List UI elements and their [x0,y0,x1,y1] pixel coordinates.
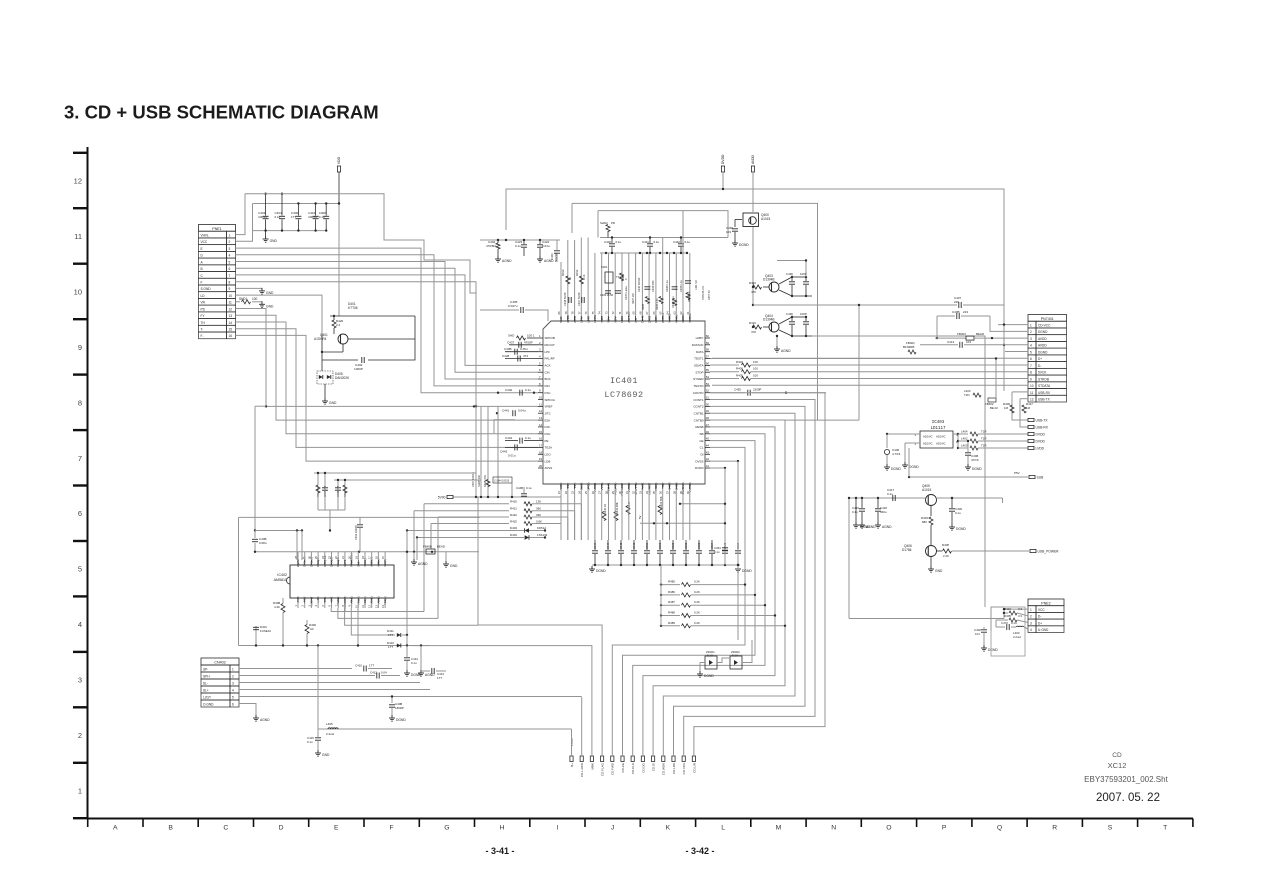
svg-text:33: 33 [638,491,642,495]
svg-text:C467 100/10: C467 100/10 [471,472,475,487]
svg-text:A1015: A1015 [761,217,770,221]
svg-text:0.047u: 0.047u [508,304,518,308]
svg-text:R421: R421 [510,507,517,511]
svg-text:0.2K: 0.2K [694,580,700,584]
wires PNE1 VHVL VCC [236,194,253,242]
svg-text:USB-RX: USB-RX [1036,425,1049,429]
svg-text:CONT2: CONT2 [693,405,703,409]
svg-text:PVB: PVB [296,596,300,601]
wires IC401 bottom pins down [561,489,690,540]
svg-text:FSC: FSC [545,432,552,436]
svg-text:2.2: 2.2 [336,323,341,327]
svg-text:AGND: AGND [502,259,512,263]
svg-text:880: 880 [922,520,927,524]
svg-text:2.2uH: 2.2uH [1013,635,1021,639]
svg-text:A3: A3 [310,627,314,631]
svg-text:100: 100 [753,360,758,364]
svg-text:USB-RX: USB-RX [1038,391,1051,395]
svg-text:CE: CE [699,439,703,443]
svg-text:S: S [1108,825,1113,832]
svg-text:37: 37 [666,491,670,495]
wire VDD down [338,204,340,317]
svg-text:BEAD: BEAD [976,332,985,336]
svg-text:E: E [334,825,339,832]
svg-text:E: E [201,247,203,251]
svg-text:0.1u: 0.1u [525,436,531,440]
svg-text:D404: D404 [510,533,517,537]
svg-text:67: 67 [645,311,649,315]
svg-text:1TT: 1TT [369,664,374,668]
svg-text:LVDD: LVDD [1036,446,1045,450]
svg-text:BCK: BCK [545,377,551,381]
svg-text:5.1V: 5.1V [707,654,713,658]
svg-text:1TT: 1TT [388,645,393,649]
svg-text:25: 25 [584,491,588,495]
svg-text:Y400: Y400 [600,316,604,323]
transistor Q404 cluster [749,312,812,337]
svg-text:60: 60 [706,334,710,338]
svg-text:C451: C451 [658,542,662,549]
svg-text:5: 5 [229,260,231,264]
svg-text:DVDD: DVDD [721,154,725,164]
svg-text:0.1u: 0.1u [525,388,531,392]
svg-text:T1R: T1R [981,444,986,448]
svg-text:C-1644 100/10: C-1644 100/10 [494,481,510,483]
svg-text:3: 3 [1030,621,1032,625]
svg-text:CD-CE: CD-CE [621,763,625,773]
ground capbank [263,236,278,243]
svg-text:0.45u: 0.45u [520,347,528,351]
svg-text:100 1: 100 1 [527,334,535,338]
svg-text:11: 11 [1030,391,1034,395]
svg-text:BF03RB: BF03RB [903,345,914,349]
svg-text:R405: R405 [1004,614,1011,618]
IC IC402 AM5810 [274,553,394,611]
svg-text:180DP: 180DP [395,706,404,710]
svg-text:LINV: LINV [580,316,584,323]
transistor Q401 cluster [314,202,415,371]
svg-text:XOV: XOV [613,317,617,323]
svg-text:11: 11 [229,301,233,305]
svg-text:58: 58 [706,348,710,352]
svg-text:0.1u: 0.1u [515,244,521,248]
svg-text:5: 5 [232,696,234,700]
diode D405 DAN202K [317,360,350,398]
svg-text:2.2uH: 2.2uH [326,732,334,736]
svg-text:L: L [721,825,725,832]
svg-text:M: M [776,825,782,832]
svg-text:12: 12 [229,307,233,311]
svg-text:3: 3 [232,682,234,686]
svg-text:BEAD: BEAD [437,545,445,549]
svg-text:E2K: E2K [545,418,551,422]
svg-text:I: I [556,825,558,832]
svg-text:55: 55 [706,368,710,372]
junction dots left rows [473,405,477,407]
svg-text:LD1117: LD1117 [930,427,946,431]
transistor Q400 cluster [721,154,770,328]
svg-text:C442: C442 [505,436,513,440]
svg-text:TE2A: TE2A [545,446,553,450]
svg-text:IC401: IC401 [610,376,638,386]
ground S.GND [259,288,274,295]
svg-text:C457 3C: C457 3C [708,290,711,300]
capacitor C408r [965,440,982,471]
svg-text:0.1u: 0.1u [526,486,532,490]
svg-text:C447: C447 [593,542,597,549]
svg-text:CD-VCC: CD-VCC [1038,323,1051,327]
svg-text:TESTO: TESTO [694,384,705,388]
svg-text:36: 36 [659,491,663,495]
IC IC401 LC78692 [538,311,710,496]
svg-text:4.7/16: 4.7/16 [892,452,901,456]
svg-text:KTT06: KTT06 [348,306,358,310]
svg-text:69: 69 [632,311,636,315]
svg-text:C40B: C40B [504,347,512,351]
svg-text:DATA: DATA [696,350,704,354]
svg-text:VCC: VCC [201,240,208,244]
diodes D410 D411 cluster [387,629,435,677]
svg-text:13: 13 [539,416,543,420]
svg-text:51: 51 [706,396,710,400]
terminal DVDD1 [1028,432,1045,436]
svg-text:CNTB1: CNTB1 [694,411,704,415]
svg-text:DGND: DGND [396,718,406,722]
wire P5V [908,448,1028,478]
svg-text:DGND: DGND [988,648,998,652]
svg-text:D400: D400 [668,482,672,490]
svg-text:RESB: RESB [695,425,703,429]
svg-text:L404: L404 [961,430,968,434]
svg-text:0.1u: 0.1u [307,740,313,744]
svg-text:DGND: DGND [742,569,752,573]
svg-text:R413: R413 [561,269,565,276]
svg-text:PN7401: PN7401 [1041,317,1054,321]
svg-text:72: 72 [611,311,615,315]
svg-text:GND: GND [935,569,943,573]
svg-text:R44B 47K: R44B 47K [483,475,487,487]
svg-text:5V: 5V [638,515,642,519]
svg-text:R408: R408 [942,543,949,547]
svg-text:R488: R488 [668,611,675,615]
svg-text:STOP: STOP [695,370,703,374]
svg-text:1: 1 [1030,323,1032,327]
svg-text:474: 474 [523,354,528,358]
components left of IC401 [480,300,548,457]
svg-text:J: J [611,825,614,832]
svg-text:A1015: A1015 [922,488,931,492]
svg-text:C432: C432 [673,240,680,244]
svg-text:L403: L403 [961,444,968,448]
svg-text:D-: D- [1038,615,1041,619]
svg-text:6: 6 [78,509,82,518]
svg-text:48: 48 [706,416,710,420]
svg-text:R486: R486 [668,590,675,594]
svg-text:R406: R406 [736,367,743,371]
resistor SHD1 [236,297,263,304]
svg-text:47/16: 47/16 [971,458,979,462]
svg-text:43: 43 [706,450,710,454]
svg-text:1: 1 [1030,608,1032,612]
svg-text:DAIS: DAIS [647,316,651,323]
svg-text:15: 15 [229,328,233,332]
svg-text:DGND: DGND [891,467,901,471]
svg-text:2: 2 [78,731,82,740]
svg-text:1: 1 [229,233,231,237]
svg-text:C453: C453 [684,542,688,549]
svg-text:D: D [279,825,284,832]
svg-text:P5V: P5V [1014,471,1020,475]
svg-text:SYNED: SYNED [693,377,704,381]
svg-text:C443: C443 [500,449,508,453]
svg-text:AM5810: AM5810 [274,578,287,582]
svg-text:ACK: ACK [545,364,551,368]
svg-text:59: 59 [706,341,710,345]
svg-text:O: O [886,825,891,832]
ground D405 [322,398,337,405]
svg-text:0.1u: 0.1u [852,510,858,514]
cluster AGND caps above IC [480,239,560,263]
svg-text:C472: C472 [1001,621,1008,625]
svg-text:30: 30 [618,491,622,495]
svg-text:DGND: DGND [1038,330,1048,334]
inductor L405 line [307,646,572,758]
capacitor bank C403-C408 [253,193,340,236]
bottom terminals row [570,738,696,777]
svg-text:L405: L405 [326,722,333,726]
svg-text:PE: PE [545,439,549,443]
svg-text:35: 35 [652,491,656,495]
svg-text:CIN: CIN [545,370,550,374]
svg-text:SB: SB [699,432,703,436]
svg-text:T2N: T2N [964,393,969,397]
svg-text:B+: B+ [570,763,574,767]
svg-text:D-: D- [1038,364,1041,368]
svg-text:65: 65 [659,311,663,315]
svg-text:SDATA: SDATA [694,364,704,368]
svg-text:SHD5 100: SHD5 100 [477,474,481,487]
svg-text:GND: GND [329,401,337,405]
svg-text:R422: R422 [510,513,517,517]
svg-text:DGND: DGND [956,527,966,531]
capacitor C413 [420,668,446,680]
wires PNE1 E-F staircase [236,248,539,497]
svg-text:C44B: C44B [516,486,523,490]
svg-text:DATACK: DATACK [692,343,704,347]
svg-text:PNE1: PNE1 [212,227,221,231]
svg-text:VG4(*): VG4(*) [383,559,387,567]
svg-text:JITC: JITC [545,411,552,415]
svg-text:R407: R407 [736,360,743,364]
svg-text:GND: GND [266,291,274,295]
svg-text:MBK: MBK [590,763,594,770]
svg-text:500/16: 500/16 [554,253,558,262]
svg-text:4: 4 [78,620,82,629]
svg-text:S.GND: S.GND [201,287,212,291]
svg-text:LDB: LDB [545,459,551,463]
svg-text:DVDD: DVDD [1036,432,1046,436]
svg-text:330u: 330u [880,510,887,514]
terminal LVDD [1028,446,1045,450]
svg-text:SPKOA: SPKOA [545,398,555,402]
svg-text:A1SHR4: A1SHR4 [314,337,327,341]
svg-text:0.1u: 0.1u [275,215,281,219]
svg-text:D+: D+ [1038,357,1042,361]
svg-text:47K: 47K [751,330,756,334]
svg-text:22: 22 [564,491,568,495]
svg-text:CD.FLAG: CD.FLAG [601,762,605,776]
svg-text:VCC: VCC [1038,608,1045,612]
svg-text:71: 71 [618,311,622,315]
terminal USB_POWER [1030,549,1059,553]
svg-text:L340: L340 [586,316,590,323]
svg-text:2: 2 [232,675,234,679]
top bus wires [505,189,1005,420]
svg-text:6: 6 [232,703,234,707]
svg-text:33K: 33K [536,513,541,517]
svg-text:64: 64 [666,311,670,315]
svg-text:C444: C444 [606,542,610,549]
svg-text:SHD2: SHD2 [600,221,608,225]
svg-text:42: 42 [706,457,710,461]
svg-text:XIN: XIN [634,318,638,323]
svg-text:PNE2: PNE2 [1041,601,1050,605]
svg-text:0.04: 0.04 [381,671,387,675]
svg-text:AVDD: AVDD [1038,344,1047,348]
wire S.GND [236,287,263,289]
svg-text:SP-: SP- [203,668,208,672]
svg-text:K: K [666,825,671,832]
svg-text:DGND: DGND [704,674,714,678]
svg-text:SPKOB: SPKOB [545,336,555,340]
svg-text:ADJ/VC: ADJ/VC [923,442,933,446]
terminal VDD [337,156,341,204]
svg-text:CD.LRK: CD.LRK [672,763,676,774]
transistor Q403 cluster [749,272,812,297]
svg-text:R437 100: R437 100 [632,293,635,304]
resistors R420-R425 diodes D403 D404 [406,500,582,635]
svg-text:103: 103 [966,340,971,344]
svg-text:3: 3 [1030,337,1032,341]
svg-text:20: 20 [539,464,543,468]
svg-text:0.1u: 0.1u [616,240,622,244]
svg-text:CD.XFG: CD.XFG [682,762,686,774]
svg-text:B: B [168,825,173,832]
svg-text:1SS133: 1SS133 [537,533,548,537]
svg-text:2.2K: 2.2K [943,554,949,558]
svg-text:4.1K: 4.1K [582,274,586,280]
svg-text:79: 79 [564,311,568,315]
svg-text:39: 39 [679,491,683,495]
svg-text:DGND: DGND [596,569,606,573]
svg-text:7: 7 [78,454,82,463]
svg-text:4: 4 [1030,344,1032,348]
svg-text:FB403: FB403 [957,332,966,336]
svg-text:L402: L402 [961,437,968,441]
svg-text:223: 223 [963,310,968,314]
svg-text:IC402: IC402 [277,573,287,577]
svg-text:SPH: SPH [203,675,210,679]
svg-text:C447 n.asta: C447 n.asta [625,286,628,300]
vert q403 caps [777,259,807,277]
svg-text:34: 34 [645,491,649,495]
svg-text:R: R [1052,825,1057,832]
svg-text:17: 17 [539,443,543,447]
svg-text:15: 15 [539,430,543,434]
svg-text:9: 9 [78,343,82,352]
svg-text:O.GND: O.GND [203,703,214,707]
svg-text:0.2K: 0.2K [694,621,700,625]
svg-text:3: 3 [78,676,82,685]
svg-text:C410: C410 [355,664,362,668]
svg-text:CD: CD [1112,752,1122,759]
svg-text:BE.02: BE.02 [990,406,998,410]
svg-text:4: 4 [229,254,231,258]
svg-text:C40B: C40B [952,310,960,314]
svg-text:3.3: 3.3 [1018,614,1022,618]
svg-text:1TT: 1TT [388,633,393,637]
svg-text:41: 41 [706,464,710,468]
svg-text:1M: 1M [1026,406,1031,410]
agnd q403 [774,335,791,353]
svg-text:D1304B: D1304B [763,278,775,282]
svg-text:3: 3 [229,247,231,251]
svg-text:14: 14 [229,321,233,325]
svg-text:IC403: IC403 [932,421,945,425]
svg-text:G: G [444,825,449,832]
svg-text:77: 77 [577,311,581,315]
svg-text:CONTO: CONTO [693,391,704,395]
svg-text:61: 61 [686,311,690,315]
wire LD [236,295,323,334]
svg-text:5: 5 [78,565,82,574]
svg-text:1TT: 1TT [291,215,297,219]
svg-text:R412: R412 [575,269,579,276]
svg-text:24: 24 [577,491,581,495]
svg-text:53: 53 [706,382,710,386]
svg-text:DVDD: DVDD [695,466,704,470]
svg-text:R440 1K: R440 1K [603,504,607,514]
wires PN7401 [712,296,1028,427]
svg-text:13: 13 [229,314,233,318]
svg-text:L401 SR: L401 SR [695,280,698,290]
svg-text:80: 80 [557,311,561,315]
svg-text:U.GND: U.GND [1038,628,1049,632]
svg-text:C438 50/16: C438 50/16 [563,292,567,306]
svg-text:R436: R436 [642,303,645,310]
svg-text:56: 56 [706,361,710,365]
svg-text:63: 63 [672,311,676,315]
svg-text:AGND: AGND [425,673,435,677]
svg-text:12: 12 [74,177,82,186]
svg-text:CN403: CN403 [214,661,225,665]
svg-text:F3C: F3C [573,482,577,489]
svg-text:PS: PS [316,596,320,600]
svg-text:31: 31 [625,491,629,495]
svg-text:45: 45 [706,437,710,441]
svg-text:1000P: 1000P [354,367,363,371]
svg-text:18: 18 [539,450,543,454]
svg-text:CD.DO: CD.DO [641,762,645,772]
svg-text:14: 14 [539,423,543,427]
svg-text:0.04u: 0.04u [542,244,550,248]
svg-text:C452: C452 [671,542,675,549]
svg-text:TH: TH [201,321,206,325]
svg-text:2200P: 2200P [753,388,761,392]
svg-text:PAL/RF: PAL/RF [545,357,555,361]
svg-text:16: 16 [229,334,233,338]
svg-text:0.1u: 0.1u [1011,621,1017,625]
